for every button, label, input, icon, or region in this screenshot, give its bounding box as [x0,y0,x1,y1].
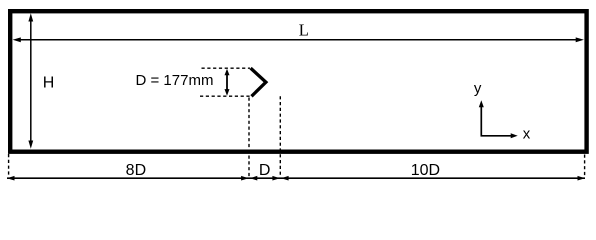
dashed extension line top of body [202,67,251,69]
svg-text:8D: 8D [126,162,146,179]
svg-text:L: L [299,20,309,39]
coordinate axes [479,100,518,138]
bottom dimension arrowheads [7,176,585,181]
label x [523,126,531,143]
svg-text:H: H [43,75,55,92]
label y [474,80,482,97]
dashed projection line left wall [8,154,10,177]
chevron bluff body [251,68,266,96]
dashed extension line bottom of body [200,95,251,97]
dimension D double arrow [225,69,230,96]
dashed projection line left of body [248,98,250,178]
label H [43,75,55,92]
label 10D [411,162,440,179]
dashed projection line right wall [584,155,586,177]
svg-text:10D: 10D [411,162,440,179]
label L [299,20,309,39]
label 8D [126,162,146,179]
svg-text:D: D [259,162,271,179]
domain boundary rectangle [10,11,586,152]
svg-text:y: y [474,80,482,97]
dimension L line [13,37,584,42]
label D = 177mm [136,72,214,89]
svg-text:x: x [523,126,531,143]
label D [259,162,271,179]
dimension H line [28,13,33,148]
dashed projection line right of body [279,96,281,177]
bottom dimension line [7,177,585,179]
svg-text:D = 177mm: D = 177mm [136,72,214,89]
